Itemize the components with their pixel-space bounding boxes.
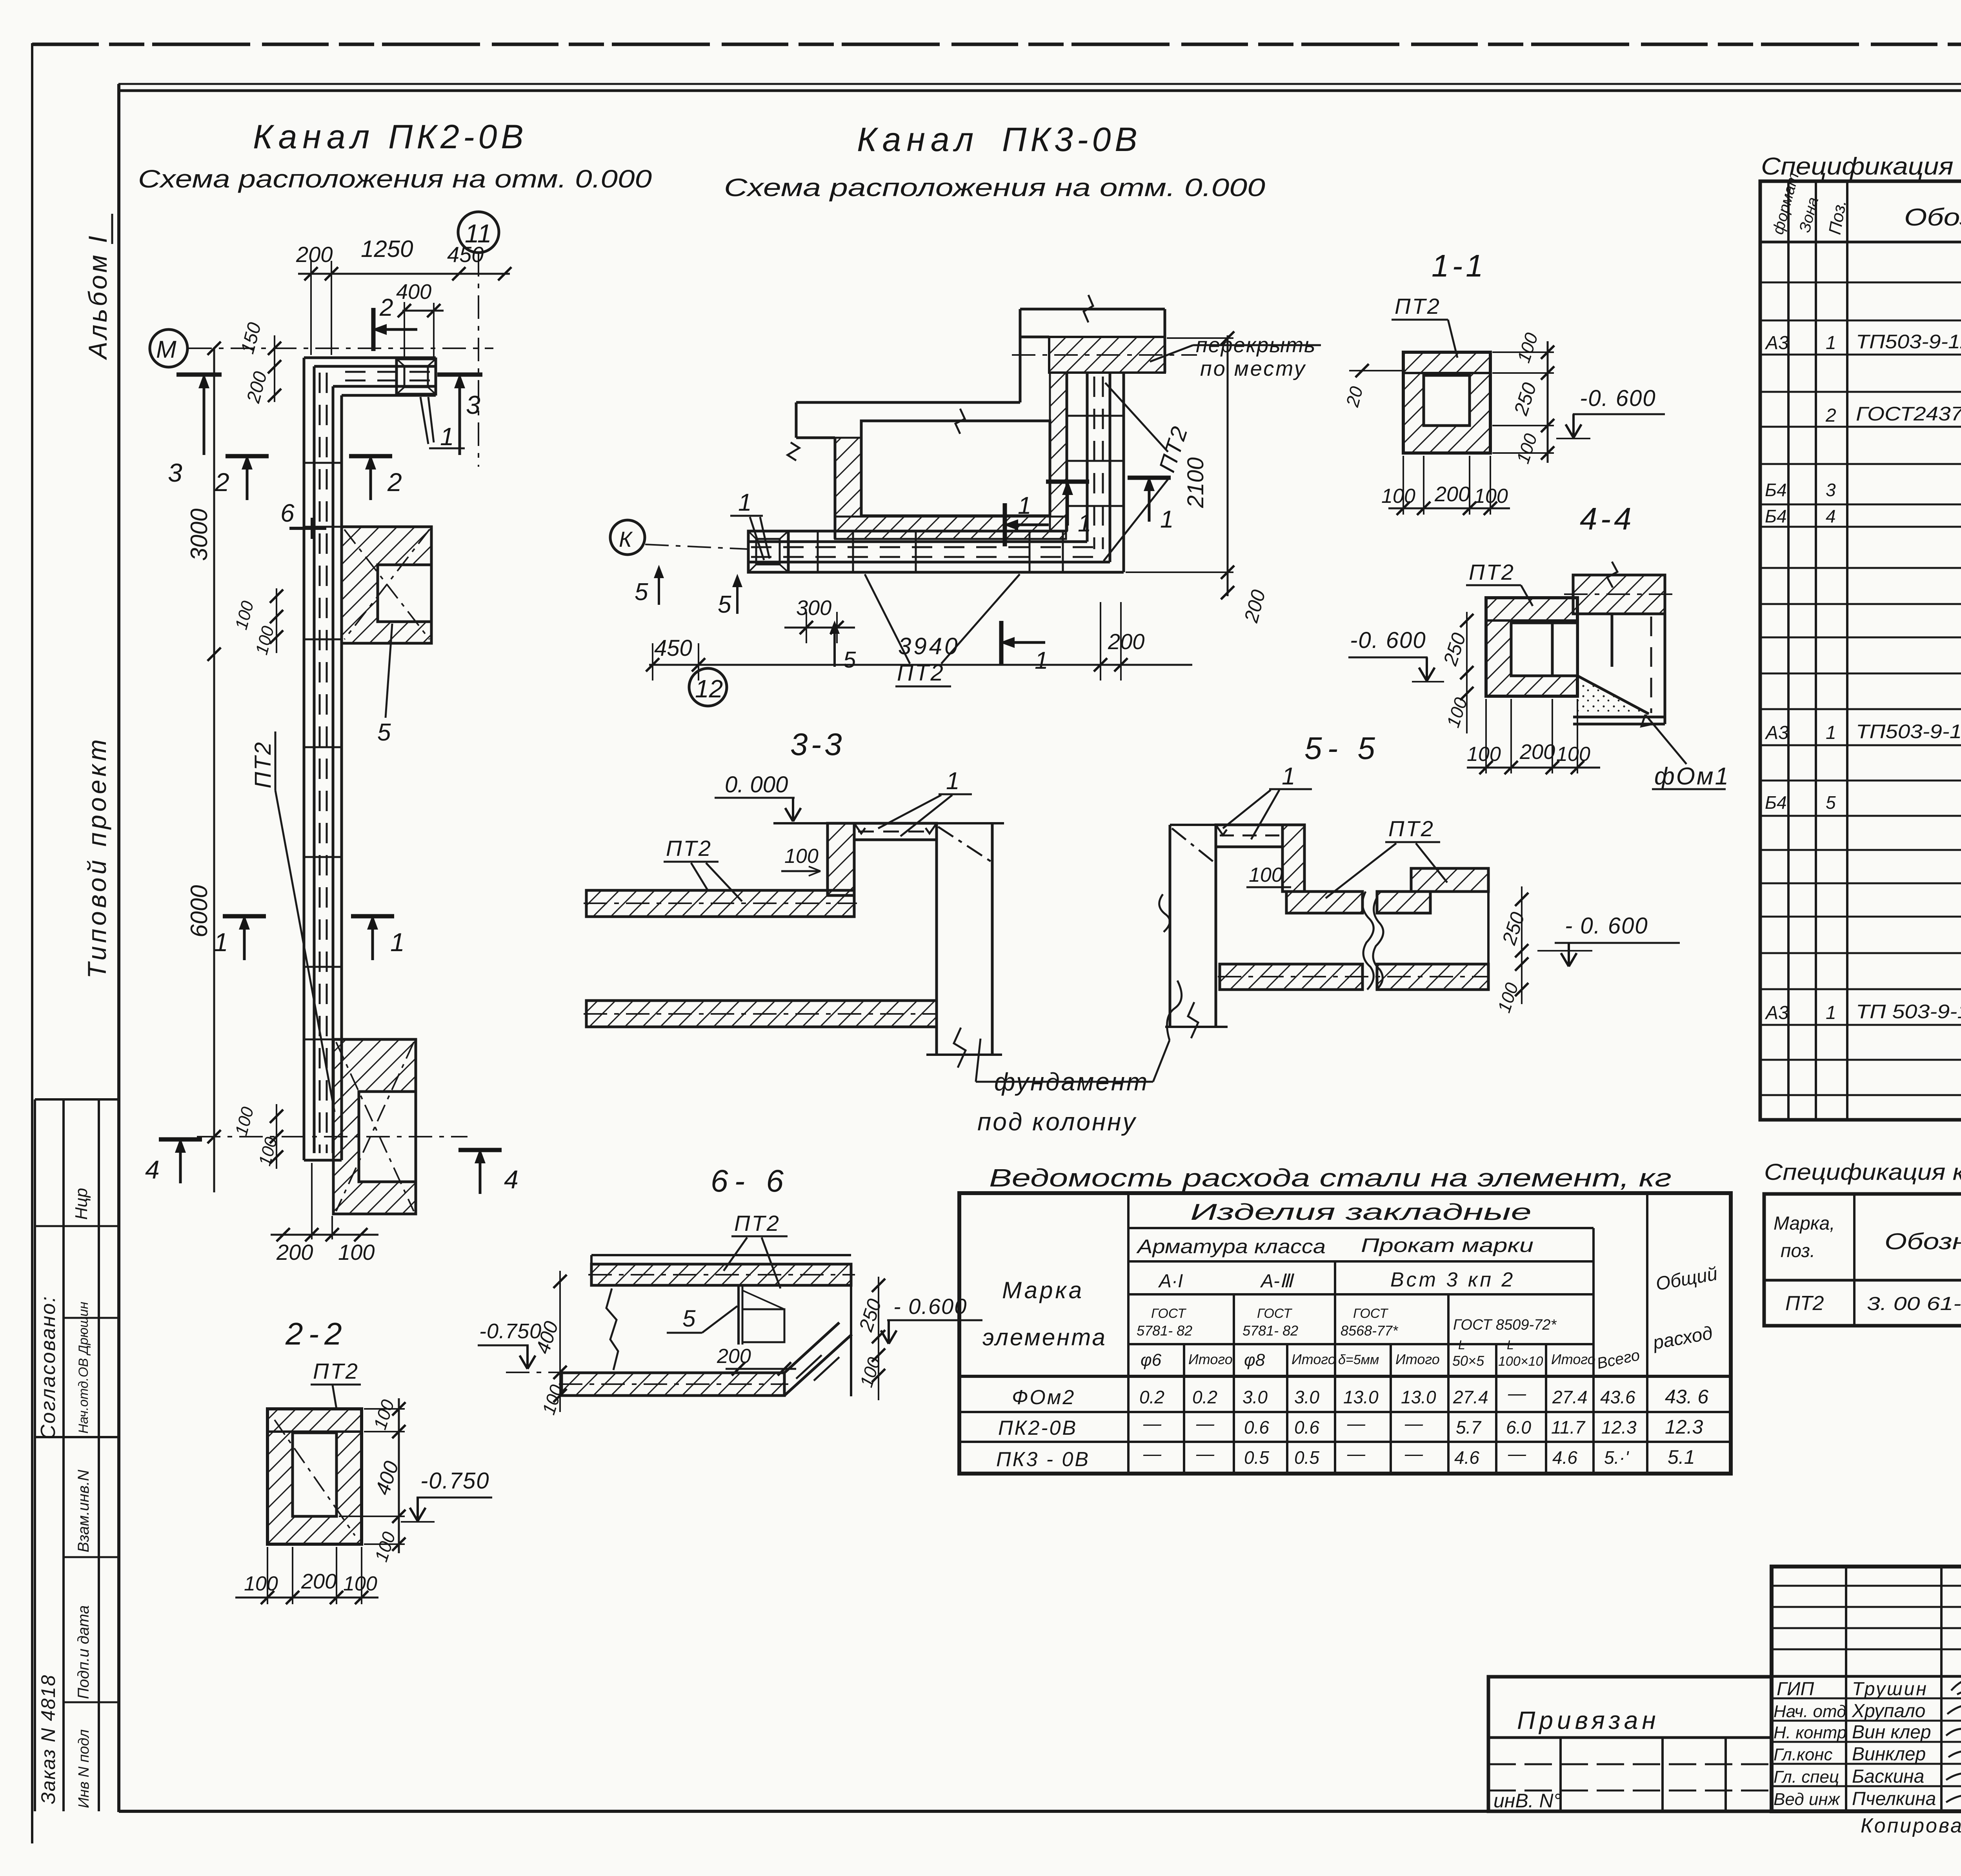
svg-text:φ8: φ8: [1244, 1350, 1265, 1370]
plan3 hatched band top: [1049, 337, 1165, 373]
plan3 hatch left strip: [835, 438, 861, 517]
sec44 foundation top band: [1573, 575, 1665, 614]
svg-text:Спецификация к схемам располож: Спецификация к схемам расположения канал…: [1764, 1159, 1961, 1185]
svg-text:0.6: 0.6: [1244, 1417, 1269, 1437]
SEC55: [1159, 731, 1680, 1038]
plan3 bottom dim line: [649, 664, 1192, 666]
svg-text:5: 5: [718, 591, 731, 618]
svg-text:—: —: [1508, 1443, 1526, 1464]
plan2 lower axis: [197, 1136, 468, 1137]
SIDEBAR: [35, 214, 119, 1811]
sec33 left wall hatched: [828, 823, 854, 895]
svg-text:Б4: Б4: [1765, 792, 1787, 813]
svg-text:Нач.отд.ОВ Дрюшин: Нач.отд.ОВ Дрюшин: [76, 1302, 91, 1434]
sec44 ring hatched: [1486, 598, 1577, 696]
svg-text:φ6: φ6: [1141, 1350, 1162, 1370]
svg-text:1: 1: [1826, 333, 1836, 353]
svg-text:Гл.конс: Гл.конс: [1774, 1745, 1833, 1764]
spec1 column lines: [1788, 181, 1961, 1120]
svg-text:Хрупало: Хрупало: [1852, 1701, 1925, 1721]
svg-text:по месту: по месту: [1200, 357, 1306, 380]
sec22 bottom dims: [235, 1597, 378, 1599]
vedomost horizontals: [959, 1228, 1731, 1442]
svg-text:инВ. N°: инВ. N°: [1493, 1790, 1561, 1812]
SPEC1: [1760, 153, 1961, 1120]
sec11 ring hatched: [1403, 352, 1490, 453]
svg-text:3.0: 3.0: [1294, 1387, 1319, 1407]
sec66 bottom slab hatched: [562, 1373, 784, 1396]
plan2 vertical dim line 3000/6000: [213, 348, 215, 1192]
sec33 lower slab hatched: [586, 1001, 937, 1027]
svg-text:5781- 82: 5781- 82: [1137, 1323, 1192, 1339]
plan3 hatch bottom strip: [835, 517, 1066, 539]
svg-text:А-Ⅲ: А-Ⅲ: [1260, 1271, 1295, 1292]
svg-text:Нач. отд: Нач. отд: [1774, 1702, 1846, 1721]
svg-text:Н. контр: Н. контр: [1774, 1723, 1846, 1742]
svg-text:4: 4: [145, 1155, 160, 1184]
axis circle 11: [458, 212, 499, 253]
plan3 horizontal channel walls: [748, 531, 1124, 572]
sec55 break lines middle: [1363, 892, 1373, 990]
svg-text:Схема расположения на отм. 0.0: Схема расположения на отм. 0.000: [138, 165, 652, 193]
svg-text:100: 100: [343, 1572, 377, 1595]
plan2 channel joint ties: [304, 463, 342, 1039]
svg-text:М: М: [156, 336, 176, 363]
plan3 wall axis dashdot: [1012, 354, 1197, 356]
svg-text:L: L: [1458, 1338, 1465, 1352]
svg-text:11.7: 11.7: [1551, 1417, 1586, 1437]
svg-text:0.5: 0.5: [1244, 1447, 1269, 1468]
sec22 right dims: [398, 1398, 400, 1553]
svg-text:δ=5мм: δ=5мм: [1338, 1352, 1379, 1367]
vedomost verticals: [1128, 1193, 1647, 1474]
svg-text:—: —: [1196, 1413, 1215, 1434]
plan2 section mark 2 top: [372, 308, 417, 351]
svg-text:Обозначение: Обозначение: [1904, 204, 1961, 231]
svg-text:Типовой проект: Типовой проект: [82, 736, 111, 979]
svg-text:450: 450: [447, 242, 484, 267]
svg-text:300: 300: [796, 596, 831, 620]
plan3 hatch right strip: [1050, 373, 1067, 531]
svg-text:0.2: 0.2: [1192, 1387, 1217, 1407]
svg-text:фОм1: фОм1: [1654, 763, 1730, 790]
svg-text:-0. 600: -0. 600: [1350, 628, 1426, 653]
plan3 pit rect: [861, 421, 1050, 516]
svg-text:—: —: [1404, 1443, 1423, 1464]
svg-text:1250: 1250: [361, 236, 413, 262]
sec33 upper slab hatched: [586, 890, 854, 917]
plan3 section marks 1 inside: [1003, 503, 1049, 546]
svg-text:43. 6: 43. 6: [1665, 1386, 1708, 1408]
svg-text:6: 6: [280, 499, 295, 527]
svg-text:ГИП: ГИП: [1777, 1679, 1814, 1699]
svg-text:450: 450: [654, 635, 692, 661]
svg-text:Привязан: Привязан: [1517, 1706, 1660, 1734]
svg-text:2: 2: [387, 468, 402, 497]
svg-text:—: —: [1404, 1413, 1423, 1434]
axis circle K: [610, 520, 645, 555]
sec55 cover plate: [1216, 825, 1282, 847]
svg-text:1: 1: [1018, 492, 1031, 519]
svg-text:А·I: А·I: [1158, 1271, 1183, 1292]
sec44 dotted slope fill: [1577, 676, 1649, 714]
svg-text:5- 5: 5- 5: [1304, 731, 1381, 766]
plan3 left slab outline: [796, 402, 1020, 539]
spec1 header row bottom: [1760, 241, 1961, 244]
svg-text:Инв N подл: Инв N подл: [76, 1729, 92, 1808]
stamp signature box: [1772, 1567, 1961, 1811]
svg-text:Пчелкина: Пчелкина: [1852, 1789, 1936, 1809]
sec66 right edge: [850, 1264, 852, 1396]
plan2 section marks 3: [176, 373, 222, 377]
svg-text:Канал: Канал: [253, 118, 375, 156]
sidebar row lines: [35, 1225, 119, 1227]
svg-text:6- 6: 6- 6: [711, 1163, 790, 1198]
svg-text:ТП503-9-12.86 -КЖИ.180: ТП503-9-12.86 -КЖИ.180: [1856, 721, 1961, 742]
svg-text:2: 2: [1825, 405, 1836, 426]
svg-text:элемента: элемента: [982, 1324, 1107, 1350]
svg-text:ПК2-0В: ПК2-0В: [388, 118, 528, 156]
sec11 right dims: [1547, 341, 1549, 463]
svg-text:27.4: 27.4: [1453, 1387, 1488, 1407]
svg-text:100: 100: [784, 845, 819, 868]
svg-text:5.·': 5.·': [1604, 1447, 1630, 1468]
vedomost outer box: [959, 1193, 1731, 1474]
svg-text:ПТ2: ПТ2: [1395, 294, 1441, 318]
plan2 pos label 1: [420, 397, 465, 448]
svg-text:100: 100: [1474, 485, 1508, 508]
plan2 foundation block upper: [342, 527, 431, 643]
svg-text:1-1: 1-1: [1432, 248, 1486, 283]
sec44 foundation column: [1573, 614, 1665, 724]
sec33 floor lines: [773, 822, 828, 824]
svg-text:Арматура класса: Арматура класса: [1136, 1236, 1326, 1257]
svg-text:ПТ2: ПТ2: [666, 836, 712, 861]
svg-text:50×5: 50×5: [1452, 1353, 1484, 1369]
svg-text:100: 100: [1249, 864, 1283, 886]
spec2 verticals: [1854, 1194, 1961, 1326]
svg-text:13.0: 13.0: [1401, 1387, 1436, 1407]
main frame left: [117, 84, 120, 1812]
svg-text:4.6: 4.6: [1454, 1447, 1479, 1468]
svg-text:—: —: [1347, 1413, 1366, 1434]
svg-text:3: 3: [168, 458, 182, 487]
plan2 section marks 1: [223, 915, 266, 960]
svg-text:ФОм2: ФОм2: [1012, 1386, 1075, 1409]
main frame top double line: [118, 83, 1961, 85]
svg-text:—: —: [1143, 1413, 1162, 1434]
PLAN-PK3: [610, 121, 1321, 706]
outer border left: [31, 43, 33, 1843]
svg-text:1: 1: [1160, 506, 1173, 533]
svg-text:ПТ2: ПТ2: [1388, 816, 1435, 841]
svg-text:Марка,: Марка,: [1774, 1213, 1835, 1234]
svg-text:ПК2-0В: ПК2-0В: [998, 1417, 1077, 1439]
plan2 closure plate end: [397, 359, 436, 394]
svg-text:1: 1: [1078, 510, 1091, 537]
svg-text:4: 4: [1826, 506, 1836, 526]
SEC11: [1342, 248, 1665, 515]
svg-text:- 0. 600: - 0. 600: [1565, 913, 1648, 939]
svg-text:ПТ2: ПТ2: [250, 741, 276, 788]
svg-text:1: 1: [1282, 763, 1295, 790]
svg-text:1: 1: [946, 768, 959, 795]
svg-text:Копировал Качаева: Копировал Качаева: [1861, 1814, 1961, 1837]
svg-text:Согласовано:: Согласовано:: [37, 1295, 60, 1439]
SEC66: [478, 1163, 982, 1417]
svg-text:2: 2: [215, 468, 229, 497]
sec55 upper slab right part: [1377, 892, 1430, 913]
plan3 upper white wall band: [1020, 309, 1165, 402]
svg-text:4-4: 4-4: [1580, 501, 1635, 536]
svg-text:—: —: [1143, 1443, 1162, 1464]
sec55 upper slab left part: [1286, 892, 1363, 913]
svg-text:Вин клер: Вин клер: [1852, 1722, 1931, 1743]
svg-text:ПТ2: ПТ2: [1785, 1292, 1824, 1315]
svg-text:—: —: [1508, 1383, 1526, 1403]
svg-text:ПТ2: ПТ2: [1469, 560, 1515, 584]
plan2 channel walls: [304, 358, 436, 1160]
plan3 break mark left edge: [788, 442, 799, 460]
plan2 channel dashed centerlines: [320, 372, 433, 1153]
plan3 channel dashed centerlines: [751, 377, 1103, 557]
svg-text:ПК3 - 0В: ПК3 - 0В: [996, 1448, 1090, 1471]
plan3 channel joint ties: [818, 416, 1124, 572]
privyazan box: [1488, 1677, 1772, 1811]
svg-text:Схема расположения на отм. 0.0: Схема расположения на отм. 0.000: [724, 173, 1266, 202]
plan2 pos 5 leader: [386, 624, 392, 718]
spec2 outer box: [1764, 1194, 1961, 1326]
sec55 lower slab right part: [1377, 964, 1488, 990]
svg-text:ТП503-9-12 86 -КЖИ.180: ТП503-9-12 86 -КЖИ.180: [1856, 331, 1961, 353]
svg-text:А3: А3: [1765, 1003, 1789, 1023]
main frame bottom: [119, 1810, 1961, 1813]
svg-text:12.3: 12.3: [1601, 1417, 1637, 1437]
svg-text:1: 1: [1826, 722, 1836, 743]
svg-text:12.3: 12.3: [1665, 1416, 1703, 1438]
svg-text:3. 00 61-2/82Вып. 1-2: 3. 00 61-2/82Вып. 1-2: [1867, 1294, 1961, 1314]
svg-text:5: 5: [377, 719, 391, 746]
SEC44: [1348, 501, 1730, 790]
svg-text:под колонну: под колонну: [977, 1108, 1137, 1136]
sec11 bottom dims: [1388, 508, 1510, 509]
svg-text:Итого: Итого: [1188, 1351, 1233, 1367]
svg-text:43.6: 43.6: [1600, 1387, 1635, 1407]
svg-text:Б4: Б4: [1765, 506, 1787, 526]
svg-text:3940: 3940: [898, 633, 960, 659]
svg-text:поз.: поз.: [1781, 1241, 1815, 1261]
svg-text:100×10: 100×10: [1498, 1354, 1543, 1369]
svg-text:0.6: 0.6: [1294, 1417, 1319, 1437]
svg-text:Трушин: Трушин: [1852, 1679, 1928, 1699]
svg-text:12: 12: [695, 675, 723, 703]
svg-text:200: 200: [301, 1570, 337, 1593]
svg-text:Вед инж: Вед инж: [1774, 1790, 1841, 1809]
svg-text:100: 100: [338, 1240, 375, 1265]
svg-text:0. 000: 0. 000: [725, 772, 788, 797]
svg-text:Подп.и дата: Подп.и дата: [75, 1605, 92, 1699]
plan2 foundation block lower: [333, 1039, 416, 1214]
SEC22: [235, 1316, 492, 1604]
svg-text:ГОСТ: ГОСТ: [1151, 1306, 1186, 1321]
svg-text:200: 200: [1434, 482, 1470, 506]
svg-text:2100: 2100: [1183, 457, 1208, 508]
svg-text:5: 5: [635, 579, 648, 606]
plan2 bottom dims: [271, 1234, 378, 1236]
sidebar upper table box: [35, 1098, 119, 1101]
svg-text:3000: 3000: [186, 509, 212, 561]
svg-text:3.0: 3.0: [1242, 1387, 1268, 1407]
svg-text:-0.750: -0.750: [479, 1319, 542, 1343]
sec66 slab step diagonal: [784, 1334, 852, 1396]
svg-text:6000: 6000: [186, 885, 212, 937]
sec55 step band hatched: [1411, 868, 1488, 892]
svg-text:200: 200: [1108, 629, 1144, 654]
svg-text:200: 200: [296, 242, 333, 267]
sec66 left dims 400/100: [559, 1271, 561, 1412]
svg-text:-0.750: -0.750: [420, 1468, 489, 1494]
svg-text:5.1: 5.1: [1668, 1446, 1695, 1468]
svg-text:6.0: 6.0: [1506, 1417, 1531, 1437]
sec55 floor line top: [1170, 824, 1282, 826]
axis circle 12: [689, 668, 727, 706]
svg-text:3-3: 3-3: [790, 727, 845, 762]
svg-text:ТП 503-9-12.86-КЖИ.180: ТП 503-9-12.86-КЖИ.180: [1856, 1001, 1961, 1023]
svg-text:—: —: [1196, 1443, 1215, 1464]
sec55 right wall hatched: [1282, 825, 1304, 892]
svg-text:3: 3: [466, 390, 480, 419]
svg-text:2: 2: [379, 294, 393, 321]
outer border top (dashed scan line): [32, 43, 1961, 46]
sec33 column under floor: [935, 823, 938, 1055]
VEDOMOST: [959, 1164, 1731, 1474]
axis circle M: [150, 329, 187, 367]
svg-text:А3: А3: [1765, 333, 1789, 353]
svg-text:1: 1: [440, 422, 454, 451]
SEC33: [584, 727, 1182, 1136]
svg-text:Заказ N 4818: Заказ N 4818: [37, 1674, 59, 1804]
STAMP: [1488, 1567, 1961, 1837]
sec55 lower slab left part: [1220, 964, 1363, 990]
svg-text:Гл. спец: Гл. спец: [1774, 1767, 1839, 1787]
svg-text:ГОСТ: ГОСТ: [1353, 1306, 1388, 1321]
sec66 anchor detail pos5: [737, 1286, 740, 1345]
svg-text:0.2: 0.2: [1139, 1387, 1164, 1407]
plan3 break mark pit top: [955, 409, 965, 434]
svg-text:5: 5: [682, 1305, 696, 1332]
stamp signature scribbles: [1946, 1675, 1961, 1802]
sec66 channel left break: [606, 1288, 618, 1370]
svg-text:L: L: [1507, 1338, 1514, 1352]
plan3 pos 5 arrow below channel: [833, 624, 836, 667]
svg-text:Марка: Марка: [1002, 1277, 1084, 1303]
svg-text:ГОСТ 8509-72*: ГОСТ 8509-72*: [1453, 1317, 1557, 1333]
svg-text:8568-77*: 8568-77*: [1341, 1323, 1398, 1339]
svg-text:- 0.600: - 0.600: [893, 1294, 967, 1319]
svg-text:400: 400: [396, 280, 431, 304]
svg-text:5.7: 5.7: [1456, 1417, 1481, 1437]
svg-text:К: К: [619, 527, 633, 551]
sec55 column under floor: [1169, 825, 1172, 1027]
svg-text:Итого: Итого: [1551, 1351, 1595, 1367]
svg-text:2-2: 2-2: [285, 1316, 347, 1351]
svg-text:ГОСТ: ГОСТ: [1257, 1306, 1292, 1321]
svg-text:Итого: Итого: [1292, 1351, 1336, 1367]
svg-text:Прокат марки: Прокат марки: [1361, 1234, 1534, 1256]
spec2 header bottom: [1764, 1279, 1961, 1282]
svg-text:—: —: [1347, 1443, 1366, 1464]
svg-text:100: 100: [1556, 743, 1590, 766]
svg-text:ПТ2: ПТ2: [734, 1211, 780, 1236]
svg-text:Канал: Канал: [857, 121, 979, 158]
svg-text:13.0: 13.0: [1343, 1387, 1379, 1407]
SPEC2: [1764, 1159, 1961, 1326]
plan3 section marks 5 at closure: [658, 569, 660, 605]
plan2 section marks 2 lower: [226, 455, 269, 500]
svg-text:200: 200: [276, 1240, 313, 1265]
plan2 top dimension line: [298, 273, 510, 275]
sec55 right edge: [1487, 868, 1490, 986]
svg-text:0.5: 0.5: [1294, 1447, 1319, 1468]
svg-text:Взам.инв.N: Взам.инв.N: [75, 1470, 92, 1552]
sec44 bottom dims: [1467, 767, 1600, 769]
plan2 section marks 4: [159, 1138, 202, 1183]
svg-text:200: 200: [1519, 740, 1555, 764]
svg-text:100: 100: [1381, 485, 1415, 508]
svg-text:Баскина: Баскина: [1852, 1766, 1924, 1787]
svg-text:100: 100: [244, 1572, 278, 1595]
svg-text:27.4: 27.4: [1552, 1387, 1588, 1407]
svg-text:-0. 600: -0. 600: [1580, 386, 1656, 411]
svg-text:1: 1: [1826, 1003, 1836, 1023]
svg-text:5781- 82: 5781- 82: [1242, 1323, 1298, 1339]
svg-text:1: 1: [1035, 647, 1048, 674]
svg-text:Нцр: Нцр: [72, 1188, 91, 1220]
svg-text:1: 1: [390, 928, 405, 957]
svg-text:Вст 3 кп 2: Вст 3 кп 2: [1390, 1268, 1515, 1291]
spec1 row lines: [1760, 282, 1961, 1095]
svg-text:200: 200: [717, 1345, 751, 1368]
plan3 vertical channel walls: [1067, 373, 1124, 572]
svg-text:Итого: Итого: [1395, 1351, 1440, 1367]
svg-text:4.6: 4.6: [1552, 1447, 1577, 1468]
svg-text:100: 100: [1467, 743, 1501, 766]
plan3 closure plate end: [748, 531, 788, 572]
svg-text:1: 1: [738, 489, 751, 516]
svg-text:ГОСТ24379.1- 80: ГОСТ24379.1- 80: [1856, 403, 1961, 425]
svg-text:ПТ2: ПТ2: [313, 1359, 359, 1383]
svg-text:Альбом I: Альбом I: [83, 233, 112, 360]
svg-text:3: 3: [1826, 480, 1836, 500]
svg-text:5: 5: [843, 647, 856, 673]
svg-text:А3: А3: [1765, 722, 1789, 743]
sec33 cover plate: [854, 823, 937, 840]
svg-text:Б4: Б4: [1765, 480, 1787, 500]
svg-text:ПК3-0В: ПК3-0В: [1002, 121, 1141, 158]
svg-text:Обозначение: Обозначение: [1885, 1229, 1961, 1254]
sec66 top slab hatched: [591, 1264, 851, 1285]
spec1 outer box: [1760, 181, 1961, 1120]
svg-text:Винклер: Винклер: [1852, 1744, 1926, 1765]
svg-text:4: 4: [504, 1165, 518, 1194]
svg-text:1: 1: [214, 928, 228, 957]
svg-text:5: 5: [1826, 792, 1836, 813]
plan3 break mark top band: [1084, 295, 1093, 322]
svg-text:Ведомость расхода стали на эле: Ведомость расхода стали на элемент, кг: [989, 1164, 1672, 1192]
svg-text:Изделия закладные: Изделия закладные: [1190, 1199, 1532, 1225]
PLAN-PK2: [138, 118, 652, 1265]
sec22 ring hatched: [267, 1409, 362, 1544]
